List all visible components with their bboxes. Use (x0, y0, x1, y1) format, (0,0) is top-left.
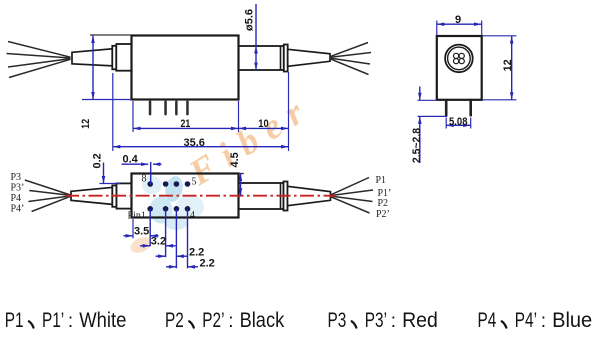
caption color legend (5, 309, 592, 332)
watermark orange Fiber text (181, 86, 319, 193)
svg-text:P2P2’:Black: P2P2’:Black (165, 309, 285, 332)
dimension 10: dim line (239, 127, 289, 129)
svg-text:P1P1’:White: P1P1’:White (5, 309, 127, 332)
svg-text:10: 10 (258, 118, 268, 130)
svg-text:9: 9 (455, 14, 461, 26)
dimension 12 right: dim line (511, 36, 513, 100)
watermark orange small blobs (128, 234, 154, 256)
svg-text:35.6: 35.6 (184, 137, 205, 149)
svg-text:P1: P1 (376, 175, 387, 186)
side view right boot (288, 49, 330, 66)
bottom view right ferrule cylinder (239, 183, 284, 209)
svg-text:P4P4’:Blue: P4P4’:Blue (478, 309, 593, 332)
pin3 drop line (175, 209, 177, 268)
svg-text:Pin1: Pin1 (128, 211, 146, 222)
svg-text:ø5.6: ø5.6 (244, 9, 256, 31)
bottom view right cylinder groove line (280, 183, 282, 209)
svg-text:21: 21 (181, 118, 191, 130)
dimension 2.2 second: arrows (166, 266, 176, 268)
dimension 5.08: extension lines (445, 118, 447, 129)
dimension 35.6: left extension line (112, 73, 114, 151)
dimension 35.6: dim line (113, 146, 289, 148)
dimension 3.2: arrows (140, 245, 150, 247)
side view pin 4 (186, 101, 189, 116)
svg-text:5.08: 5.08 (449, 116, 468, 128)
svg-text:4: 4 (190, 210, 195, 221)
dimension 3.5: body extension line (132, 219, 134, 238)
dimension 21: dim line (133, 127, 239, 129)
watermark blue blob (142, 175, 204, 230)
svg-text:3.5: 3.5 (134, 226, 149, 238)
bottom view pin dots top row (147, 181, 190, 187)
svg-text:P4: P4 (11, 193, 22, 204)
dimension dia 5.6 leader line (255, 4, 257, 70)
side view right cylinder groove line (280, 46, 282, 70)
dimension dia 5.6 arrowheads (254, 46, 258, 54)
pin4 drop line (187, 209, 189, 268)
svg-text:12: 12 (502, 59, 514, 71)
bottom view right flange ring (284, 182, 288, 211)
side view right fiber fan (4 fibers) (330, 43, 372, 75)
side view pin 2 (164, 101, 167, 116)
dimension 3.5: arrows (124, 235, 134, 237)
svg-text:0.4: 0.4 (123, 154, 139, 166)
bottom view left flange ring large (117, 183, 132, 208)
bottom view right boot (288, 186, 331, 205)
bottom view left flange ring small (112, 185, 116, 206)
dimension 2.5-2.8: extension lines (418, 99, 437, 101)
dimension 5.08: dim line (446, 124, 471, 126)
bottom view right fiber fan (330, 178, 373, 214)
dimension 0.4: vertical line to pin (150, 162, 152, 184)
dimension 12 left: bottom extension line (82, 99, 132, 101)
svg-text:4.5: 4.5 (229, 152, 241, 167)
svg-text:2.2: 2.2 (200, 257, 215, 269)
dimension 2.2 first: arrows (156, 255, 166, 257)
svg-text:0.2: 0.2 (92, 153, 104, 168)
dimension 10: right extension line (288, 72, 290, 151)
side view left flange ring large (116, 44, 131, 71)
side view left flange ring small (112, 46, 116, 70)
svg-text:P4’: P4’ (11, 203, 25, 214)
svg-text:8: 8 (142, 174, 147, 185)
dimension 12 left: top extension line (90, 34, 132, 36)
dimension 0.4: lines and arrows (122, 163, 149, 165)
svg-text:P3P3’:Red: P3P3’:Red (328, 309, 438, 332)
side view left fiber fan (4 fibers) (7, 42, 71, 78)
bottom view red centerline (65, 195, 336, 197)
side view main body (132, 36, 239, 100)
end view pin right (469, 100, 472, 117)
svg-text:P2: P2 (378, 198, 389, 209)
end view outer circle (445, 45, 473, 73)
side view pin 1 (149, 101, 152, 116)
dimension 4.5: body top extension (239, 173, 244, 175)
dimension 9: extension lines (436, 21, 438, 36)
dimension 9: dim line (437, 23, 482, 25)
svg-text:12: 12 (80, 119, 92, 129)
dimension 21: extension lines (132, 101, 134, 132)
svg-text:2.5~2.8: 2.5~2.8 (411, 128, 423, 163)
dimension 0.2: dim line with arrow (103, 163, 105, 184)
side view right flange ring (284, 45, 288, 72)
end view fiber holes clover (454, 53, 465, 63)
bottom view pin dots bottom row (147, 206, 190, 212)
svg-text:5: 5 (192, 177, 197, 188)
dimension 4.5: dim line (240, 174, 242, 196)
bottom view main body (132, 174, 239, 218)
svg-text:P2’: P2’ (376, 209, 390, 220)
svg-text:3.2: 3.2 (151, 235, 166, 247)
dimension 2.5-2.8: dim lines with outside arrows (419, 87, 421, 101)
bottom view left boot (71, 187, 112, 204)
end view inner circle (448, 47, 471, 70)
pin2 drop line (165, 209, 167, 257)
side view right ferrule cylinder (239, 46, 284, 70)
bottom view left fiber fan (25, 180, 71, 212)
side view pin 3 (175, 101, 178, 116)
dimension 0.2: extension line (100, 183, 121, 185)
dimension 12 left: dim line (92, 36, 94, 100)
side view left boot (72, 49, 112, 66)
caption enumeration commas (29, 321, 34, 327)
end view body (437, 36, 482, 100)
pin1 drop line (149, 209, 151, 246)
svg-text:P3’: P3’ (11, 182, 25, 193)
end view pin left (445, 100, 448, 117)
dimension 12 right: extension lines (483, 35, 517, 37)
